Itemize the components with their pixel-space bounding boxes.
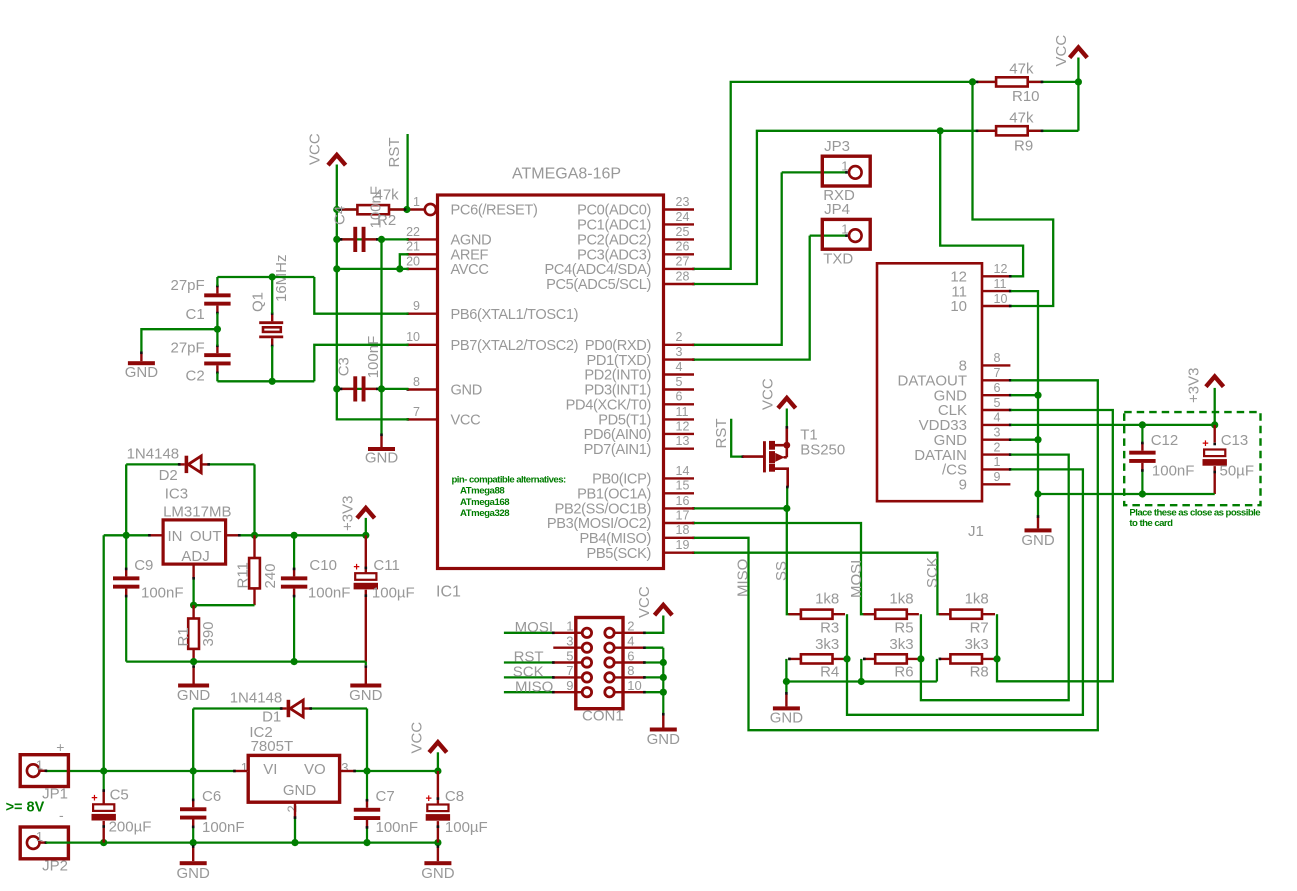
svg-text:23: 23 [676, 195, 690, 209]
node junction at pin 1 [403, 206, 410, 213]
svg-text:-: - [59, 807, 64, 823]
svg-text:2: 2 [676, 330, 683, 344]
svg-text:10: 10 [406, 330, 420, 344]
connector CON1 ISP header body [576, 618, 624, 725]
svg-text:GND: GND [770, 709, 804, 726]
svg-text:D1: D1 [262, 708, 281, 725]
wire IN down to JP1 row [103, 535, 105, 771]
svg-text:PD1(TXD): PD1(TXD) [587, 353, 652, 369]
node junction C12 bottom [1139, 490, 1146, 497]
capacitor C10 100nF [281, 535, 351, 661]
svg-text:C7: C7 [376, 788, 395, 805]
svg-text:ATmega328: ATmega328 [460, 508, 510, 519]
IC1 right pins with numbers and names [544, 195, 694, 562]
svg-text:7: 7 [566, 663, 573, 678]
wire VCC to T1 source [786, 409, 789, 446]
svg-text:+: + [91, 793, 97, 805]
wire CON1 pin2 to VCC [643, 616, 663, 635]
voltage regulator IC3 LM317MB [163, 485, 231, 565]
node junctions LM317 ground rail [190, 658, 298, 665]
node junction SS drain [783, 505, 790, 512]
svg-text:PB2(SS/OC1B): PB2(SS/OC1B) [555, 502, 651, 518]
svg-text:PC1(ADC1): PC1(ADC1) [577, 218, 651, 234]
svg-text:GND: GND [421, 865, 455, 882]
svg-text:100nF: 100nF [1152, 463, 1195, 480]
svg-text:20: 20 [406, 254, 420, 268]
wire CON1 ground pins 4 6 8 10 [643, 646, 663, 713]
wire VO row to VCC [341, 770, 438, 773]
svg-text:100nF: 100nF [141, 584, 184, 601]
svg-text:RST: RST [386, 138, 403, 168]
svg-text:9: 9 [566, 678, 573, 693]
node junction ADJ [190, 602, 197, 609]
capacitor C6 100nF [180, 771, 245, 843]
capacitor C5 200uF polarized [91, 771, 151, 843]
wire IC2 GND pin 2 [294, 802, 297, 842]
node junctions VDD33 row [1139, 421, 1218, 428]
svg-text:R9: R9 [1014, 138, 1033, 155]
svg-text:PB0(ICP): PB0(ICP) [592, 472, 651, 488]
svg-text:Q1: Q1 [250, 292, 267, 312]
voltage regulator IC2 7805T [241, 724, 349, 812]
ground symbol under dividers [770, 682, 804, 727]
svg-text:PC5(ADC5/SCL): PC5(ADC5/SCL) [546, 277, 651, 293]
svg-text:GND: GND [177, 687, 211, 704]
svg-text:R11: R11 [235, 562, 252, 588]
power symbol VCC top-left [307, 133, 346, 165]
wire R6 left to ground rail [860, 659, 862, 682]
svg-text:1N4148: 1N4148 [127, 446, 180, 463]
svg-text:18: 18 [676, 523, 690, 537]
node junctions VO row [363, 767, 441, 774]
node junction VCC R10 [1075, 78, 1082, 85]
svg-text:SCK: SCK [924, 557, 941, 588]
svg-text:C4: C4 [332, 206, 349, 225]
svg-text:PC3(ADC3): PC3(ADC3) [577, 248, 651, 264]
svg-text:GND: GND [177, 865, 211, 882]
svg-text:pin- compatible alternatives:: pin- compatible alternatives: [452, 474, 566, 485]
resistor R1 390 [175, 605, 217, 661]
resistor R7 1k8 [939, 591, 995, 637]
node junction C1 C2 [214, 326, 221, 333]
connector JP2 minus input [20, 807, 68, 875]
svg-text:8: 8 [627, 663, 634, 678]
ground symbol under C6 [177, 843, 211, 883]
svg-text:1: 1 [566, 619, 573, 634]
svg-text:+: + [1202, 438, 1208, 450]
power symbol VCC above T1 [760, 378, 796, 410]
svg-text:AGND: AGND [451, 233, 492, 249]
svg-text:VI: VI [263, 761, 277, 778]
svg-text:VCC: VCC [409, 722, 426, 754]
svg-text:6: 6 [627, 648, 634, 663]
svg-text:D2: D2 [159, 467, 178, 484]
wire pin1 row R2 [337, 208, 407, 210]
svg-text:OUT: OUT [190, 528, 222, 545]
svg-text:100nF: 100nF [368, 186, 385, 229]
svg-text:PC6(/RESET): PC6(/RESET) [451, 203, 538, 219]
wire RST vertical to pin 1 [406, 134, 408, 210]
ground symbol under CON1 [647, 713, 681, 748]
svg-text:C10: C10 [309, 557, 337, 574]
wire JP3 to PD0 RXD pin 2 [694, 172, 782, 344]
resistor R4 3k3 [788, 636, 845, 681]
node junction dots on VCC column [333, 206, 340, 393]
svg-text:17: 17 [676, 508, 690, 522]
CON1 net stubs MOSI RST SCK MISO [504, 632, 555, 694]
wire R5 right to junction [920, 614, 922, 659]
node junction C3 right [378, 385, 385, 392]
svg-text:+: + [353, 562, 359, 574]
node junction R6 right [917, 655, 924, 662]
svg-text:1k8: 1k8 [889, 591, 913, 608]
crystal Q1 16MHz [250, 254, 291, 347]
svg-text:25: 25 [676, 225, 690, 239]
J1 pins with numbers and names [898, 262, 1012, 493]
svg-text:VCC: VCC [307, 133, 324, 165]
svg-text:100nF: 100nF [376, 819, 419, 836]
wire GND column under C4 [380, 239, 382, 434]
svg-text:15: 15 [676, 479, 690, 493]
svg-text:28: 28 [676, 269, 690, 283]
svg-text:1: 1 [36, 757, 43, 772]
wire GND pin 8 row [382, 388, 409, 390]
svg-text:6: 6 [994, 381, 1001, 395]
svg-text:26: 26 [676, 240, 690, 254]
svg-text:ATMEGA8-16P: ATMEGA8-16P [512, 166, 621, 183]
diode D1 1N4148 [193, 689, 367, 725]
transistor T1 BS250 P-MOSFET [743, 427, 845, 487]
connector JP3 RXD [782, 138, 871, 204]
svg-text:1: 1 [841, 158, 848, 173]
wire JP4 to PD1 TXD pin 3 [694, 236, 810, 360]
resistor R11 240 [235, 535, 280, 605]
green note text: pin-compatible alternatives [452, 474, 566, 519]
svg-text:MOSI: MOSI [515, 619, 553, 636]
wire R4 left to ground rail [785, 659, 787, 682]
svg-text:100µF: 100µF [445, 819, 488, 836]
wire XTAL2 net [217, 345, 408, 382]
svg-text:VCC: VCC [636, 586, 653, 618]
wire ADJ node [192, 565, 254, 606]
svg-text:LM317MB: LM317MB [163, 504, 231, 521]
svg-text:21: 21 [406, 240, 420, 254]
svg-text:47k: 47k [1009, 110, 1034, 127]
svg-text:22: 22 [406, 225, 420, 239]
svg-text:6: 6 [676, 390, 683, 404]
capacitor C11 100uF polarized [353, 535, 414, 661]
power symbol VCC at CON1 [636, 586, 672, 618]
svg-text:PB1(OC1A): PB1(OC1A) [577, 487, 651, 503]
svg-text:4: 4 [627, 634, 634, 649]
svg-text:PB4(MISO): PB4(MISO) [580, 531, 651, 547]
svg-text:RST: RST [713, 419, 730, 449]
svg-text:PD0(RXD): PD0(RXD) [585, 338, 651, 354]
wire SCK divider to CLK J1 pin5 [997, 410, 1113, 681]
capacitor C8 100uF polarized [425, 771, 487, 843]
svg-text:3: 3 [676, 345, 683, 359]
svg-text:IC1: IC1 [436, 584, 461, 601]
svg-text:VCC: VCC [451, 413, 481, 429]
diode D2 1N4148 [126, 446, 254, 484]
wire J1 pin11 GND chain [1011, 291, 1038, 516]
svg-text:GND: GND [349, 687, 383, 704]
power symbol VCC top-right [1053, 35, 1087, 67]
svg-text:C1: C1 [186, 306, 205, 323]
svg-text:C6: C6 [202, 788, 221, 805]
wire IN node [104, 464, 162, 536]
wire VDD33 row to C12 C13 [1011, 388, 1215, 425]
wire AREF elbow pin 21 [400, 254, 409, 269]
svg-text:PD6(AIN0): PD6(AIN0) [584, 427, 651, 443]
svg-text:1: 1 [241, 760, 248, 775]
resistor R3 1k8 [788, 591, 845, 637]
svg-text:7: 7 [413, 405, 420, 419]
svg-text:2: 2 [994, 440, 1001, 454]
svg-text:MOSI: MOSI [848, 560, 865, 598]
capacitor C12 100nF [1129, 425, 1194, 494]
svg-text:7805T: 7805T [251, 738, 294, 755]
node junctions OUT row [251, 532, 370, 539]
svg-text:GND: GND [647, 731, 681, 748]
ground symbol under C11 [349, 662, 383, 704]
svg-text:3k3: 3k3 [965, 636, 989, 653]
svg-text:12: 12 [994, 262, 1008, 276]
svg-text:R7: R7 [970, 619, 989, 636]
svg-text:TXD: TXD [823, 250, 853, 267]
svg-text:PD7(AIN1): PD7(AIN1) [584, 442, 651, 458]
svg-text:JP3: JP3 [824, 138, 850, 155]
node junction IN C9 D2 [123, 532, 130, 539]
svg-text:3: 3 [994, 426, 1001, 440]
svg-text:27: 27 [676, 254, 690, 268]
svg-text:11: 11 [676, 405, 689, 419]
svg-text:4: 4 [676, 360, 683, 374]
svg-text:27pF: 27pF [170, 339, 204, 356]
svg-text:PB3(MOSI/OC2): PB3(MOSI/OC2) [547, 516, 651, 532]
svg-text:PB7(XTAL2/TOSC2): PB7(XTAL2/TOSC2) [451, 338, 579, 354]
svg-text:C8: C8 [445, 788, 464, 805]
svg-text:R4: R4 [820, 663, 839, 680]
node junctions GND chain [1034, 392, 1041, 498]
svg-text:5: 5 [566, 648, 573, 663]
svg-text:C3: C3 [336, 357, 353, 376]
svg-text:14: 14 [676, 464, 690, 478]
wire D1 left to VI row [192, 709, 194, 772]
svg-text:19: 19 [676, 538, 690, 552]
capacitor C13 50uF polarized [1202, 425, 1254, 494]
svg-text:GND: GND [125, 364, 159, 381]
wire VI row from JP1 [46, 770, 247, 773]
svg-text:1: 1 [841, 222, 848, 237]
resistor R8 3k3 [939, 636, 995, 681]
svg-text:+: + [56, 739, 64, 755]
wire MOSI divider to DATAIN J1 pin2 [921, 455, 1069, 701]
power symbol +3V3 regulator output [340, 496, 375, 536]
ground symbol under C8 [421, 843, 455, 883]
svg-text:IC3: IC3 [165, 485, 188, 502]
wire T1 drain to SS node [786, 486, 789, 509]
capacitor C7 100nF [354, 771, 418, 843]
svg-text:R5: R5 [894, 619, 913, 636]
svg-text:JP2: JP2 [42, 858, 68, 875]
svg-text:VCC: VCC [1053, 35, 1070, 67]
svg-text:10: 10 [950, 298, 967, 315]
wire SCK net pin19 [694, 553, 950, 615]
wire D1 right to VO row [366, 709, 368, 772]
capacitor C4 100nF [332, 186, 385, 252]
wire XTAL1 net [217, 277, 408, 314]
wire LM317 ground rail [126, 660, 366, 662]
svg-text:GND: GND [283, 782, 317, 799]
IC IC1 ATMEGA8-16P microcontroller body [436, 166, 664, 601]
ground symbol under J1 [1021, 515, 1055, 549]
svg-text:2: 2 [285, 805, 300, 812]
svg-text:PD3(INT1): PD3(INT1) [584, 383, 651, 399]
CON1 left pins 1 3 5 7 9 [553, 619, 582, 693]
svg-text:8: 8 [413, 375, 420, 389]
node junction R4 right [843, 655, 850, 662]
wire OUT node [227, 534, 366, 537]
green caption text [1129, 508, 1260, 530]
wire R8 left to ground rail [936, 659, 938, 682]
svg-text:240: 240 [262, 563, 279, 588]
ground symbol under IC1 [365, 434, 399, 467]
svg-text:8: 8 [994, 351, 1001, 365]
svg-text:10: 10 [627, 678, 641, 693]
svg-text:100nF: 100nF [365, 336, 382, 379]
svg-text:GND: GND [451, 383, 482, 399]
svg-text:11: 11 [994, 277, 1007, 291]
resistor R6 3k3 [863, 636, 919, 681]
wire bottom ground rail [46, 841, 438, 843]
node junction crystal top [269, 273, 276, 280]
connector JP1 plus input [20, 739, 68, 803]
svg-text:24: 24 [676, 210, 690, 224]
svg-text:PD2(INT0): PD2(INT0) [584, 368, 651, 384]
svg-text:9: 9 [413, 299, 420, 313]
wire MOSI net pin17 [694, 523, 874, 614]
resistor R9 47k [940, 110, 1078, 155]
svg-text:C12: C12 [1151, 432, 1179, 449]
svg-text:AREF: AREF [451, 248, 489, 264]
node junction R9 left [937, 127, 944, 134]
svg-text:C11: C11 [373, 557, 399, 574]
svg-text:Place these as close as possib: Place these as close as possible [1129, 508, 1260, 519]
svg-text:MISO: MISO [515, 678, 553, 695]
svg-text:GND: GND [1021, 532, 1055, 549]
svg-text:C2: C2 [186, 368, 205, 385]
wire MISO net pin18 long route to DATAOUT [694, 380, 1098, 730]
svg-text:27pF: 27pF [170, 277, 204, 294]
svg-text:100µF: 100µF [372, 584, 415, 601]
svg-text:JP1: JP1 [42, 786, 68, 803]
svg-text:50µF: 50µF [1220, 463, 1255, 480]
svg-text:JP4: JP4 [824, 201, 850, 218]
svg-text:2: 2 [627, 619, 634, 634]
node junctions CON1 ground [660, 659, 667, 696]
svg-text:47k: 47k [1009, 61, 1034, 78]
ground symbol under R1 [177, 662, 211, 704]
svg-text:CON1: CON1 [582, 707, 624, 724]
svg-text:3k3: 3k3 [889, 636, 913, 653]
svg-text:5: 5 [994, 396, 1001, 410]
svg-text:SS: SS [773, 561, 790, 581]
svg-text:PC0(ADC0): PC0(ADC0) [577, 203, 651, 219]
svg-text:200µF: 200µF [109, 818, 152, 835]
resistor R10 47k [973, 61, 1079, 105]
ground symbol left of crystal [125, 352, 159, 381]
svg-text:AVCC: AVCC [451, 262, 489, 278]
svg-text:ATmega168: ATmega168 [460, 497, 510, 508]
svg-text:to the card: to the card [1129, 518, 1173, 529]
svg-text:R6: R6 [894, 663, 913, 680]
svg-text:R3: R3 [820, 619, 839, 636]
svg-text:+3V3: +3V3 [1186, 368, 1203, 403]
svg-text:IN: IN [168, 528, 183, 545]
node junctions ground rail [783, 678, 865, 685]
svg-text:3k3: 3k3 [815, 636, 839, 653]
power symbol VCC at 7805 output [409, 722, 447, 771]
capacitor C1 27pF [170, 277, 230, 323]
IC1 left pins with numbers and names [406, 195, 578, 429]
svg-text:5: 5 [676, 375, 683, 389]
svg-text:100nF: 100nF [202, 819, 245, 836]
svg-text:1: 1 [994, 455, 1001, 469]
svg-text:16MHz: 16MHz [273, 254, 290, 302]
wire divider ground rail [786, 680, 937, 682]
wire VCC stem top-right [1077, 58, 1079, 131]
wire SS divider to /CS J1 pin1 [847, 469, 1083, 714]
svg-text:MISO: MISO [735, 559, 752, 597]
wire PC4 pin27 to R10 and J1 pin 10 [694, 82, 1053, 306]
svg-text:100nF: 100nF [308, 584, 351, 601]
wire C1-C2 midpoint to ground [141, 313, 217, 353]
CON1 right pins 2 4 6 8 10 [614, 619, 644, 693]
svg-text:1: 1 [413, 195, 420, 209]
node junction crystal bottom [269, 378, 276, 385]
wire SS net pin16 [694, 508, 800, 614]
node junction C4 right [378, 236, 385, 243]
capacitor C2 27pF [170, 339, 230, 384]
node junction R8 right [993, 655, 1000, 662]
svg-text:9: 9 [959, 477, 967, 494]
capacitor C3 100nF [336, 336, 382, 402]
svg-text:9: 9 [994, 470, 1001, 484]
wire R7 right to junction [996, 614, 998, 659]
wire GND row to C12 C13 bottom [1038, 493, 1215, 495]
wire D2 right to OUT [253, 464, 255, 535]
svg-text:390: 390 [200, 621, 217, 646]
wire PC5 pin28 to R9 and J1 pin 12 [694, 131, 1023, 284]
svg-text:C13: C13 [1221, 432, 1249, 449]
svg-text:10: 10 [994, 292, 1008, 306]
svg-text:R1: R1 [175, 627, 192, 646]
svg-text:12: 12 [676, 419, 690, 433]
connector J1 SD-card socket body [877, 263, 984, 540]
wire AGND row to pin 22 [382, 238, 409, 240]
svg-text:PC4(ADC4/SDA): PC4(ADC4/SDA) [544, 262, 651, 278]
svg-text:1: 1 [36, 829, 43, 844]
power symbol +3V3 right [1186, 368, 1224, 403]
svg-text:3: 3 [341, 760, 348, 775]
svg-text:1k8: 1k8 [815, 591, 839, 608]
IC1 pin-1 inversion circle [425, 204, 436, 215]
svg-text:4: 4 [994, 411, 1001, 425]
svg-text:3: 3 [566, 634, 573, 649]
svg-text:+: + [425, 793, 431, 805]
wire R3 right to junction [846, 614, 848, 659]
